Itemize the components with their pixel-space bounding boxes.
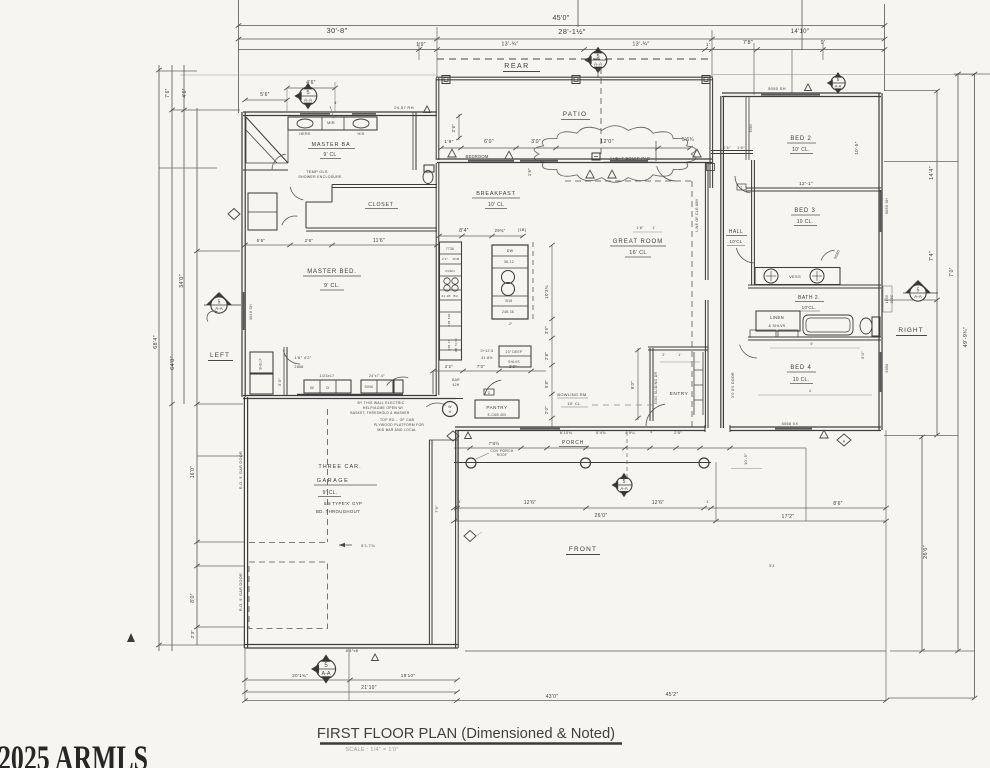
right rot label 49-9 <box>963 327 969 348</box>
svg-text:R1B: R1B <box>453 257 460 261</box>
front door opening marks <box>704 425 706 432</box>
svg-text:68'4″: 68'4″ <box>153 335 159 349</box>
right wing east wall <box>878 93 880 430</box>
laundry counter <box>304 380 351 393</box>
svg-text:LINEN: LINEN <box>770 315 784 320</box>
left rot label 8-0 <box>190 593 196 603</box>
svg-text:TOP RO... OF CAB: TOP RO... OF CAB <box>380 418 415 422</box>
north arrow small <box>127 633 135 642</box>
left tick y456 <box>197 455 243 457</box>
svg-text:2'0″: 2'0″ <box>544 406 549 414</box>
svg-text:W: W <box>448 405 452 409</box>
svg-text:13'-¾″: 13'-¾″ <box>501 42 518 48</box>
extension x792 <box>791 50 793 93</box>
left tick y251 <box>197 250 240 252</box>
svg-text:D: D <box>326 385 329 390</box>
patio post left <box>442 76 450 84</box>
front door dashed <box>626 432 628 477</box>
left tick y627 <box>197 626 245 628</box>
island sink circles <box>502 271 515 284</box>
svg-text:5050 SH: 5050 SH <box>885 198 889 214</box>
kitchen dim y371 <box>433 370 546 372</box>
svg-text:23″ DEEP: 23″ DEEP <box>506 350 523 354</box>
kitchen dim vertical x552 <box>551 245 553 427</box>
garage arrow note <box>339 544 352 546</box>
master rot window label <box>249 304 253 320</box>
svg-text:24B 400: 24B 400 <box>447 313 451 326</box>
master door tag diamond <box>299 87 317 105</box>
svg-text:MASTER BED.: MASTER BED. <box>307 269 356 275</box>
right door tag diamond <box>905 280 931 293</box>
kitchen top dim <box>439 235 523 237</box>
bathtub <box>803 315 853 335</box>
svg-text:17'2″: 17'2″ <box>782 514 795 520</box>
svg-text:W: W <box>310 385 314 390</box>
svg-text:42H: 42H <box>452 383 459 387</box>
garage dashed vertical <box>327 409 329 542</box>
svg-text:A-A: A-A <box>304 98 313 104</box>
svg-text:LEFT: LEFT <box>210 352 230 359</box>
wc toilet <box>424 165 434 172</box>
svg-text:7'0″: 7'0″ <box>949 267 955 277</box>
svg-text:10 CL.: 10 CL. <box>797 219 814 225</box>
garage dim y680 <box>245 679 457 681</box>
bed2 door tag <box>831 76 845 90</box>
svg-text:24-57 RH: 24-57 RH <box>394 105 414 110</box>
porch bottom dim line1 <box>454 507 886 509</box>
left dim vertical x182 <box>183 65 185 404</box>
svg-text:29¾″: 29¾″ <box>495 228 506 233</box>
svg-text:16'0″: 16'0″ <box>190 466 196 479</box>
right tick y300 <box>884 299 937 301</box>
porch dim vertical x457 <box>456 430 458 521</box>
right wing west wall <box>720 96 722 428</box>
left tick y566 <box>197 565 245 567</box>
garage dashed h1 <box>249 542 328 544</box>
triangle marker a <box>448 149 456 157</box>
kitchen west wall <box>435 163 437 395</box>
revision cloud <box>534 126 696 183</box>
rear window dim line <box>441 147 690 149</box>
svg-text:5060 SLIDING DR: 5060 SLIDING DR <box>654 372 658 405</box>
svg-text:41.1B: 41.1B <box>441 294 450 298</box>
svg-text:BEDROOM: BEDROOM <box>465 154 488 159</box>
svg-text:64'0″: 64'0″ <box>170 356 176 370</box>
svg-text:5'6″: 5'6″ <box>260 92 270 98</box>
svg-text:A-A: A-A <box>835 84 842 89</box>
svg-text:BED 3: BED 3 <box>794 208 815 214</box>
svg-text:8'4″: 8'4″ <box>459 228 469 234</box>
front yard line <box>465 650 886 652</box>
svg-text:8'0″: 8'0″ <box>190 593 196 603</box>
svg-text:7736: 7736 <box>446 247 454 251</box>
svg-text:36.12: 36.12 <box>504 260 514 264</box>
extension x437 top <box>436 27 438 77</box>
svg-text:ROOF: ROOF <box>497 453 507 457</box>
svg-text:3040 SH: 3040 SH <box>249 304 253 320</box>
svg-text:HELP/ACME OPEN W/: HELP/ACME OPEN W/ <box>363 406 403 410</box>
svg-text:10' CL: 10' CL <box>488 202 504 208</box>
dimension extension line x884 <box>884 4 886 91</box>
svg-text:6'0″: 6'0″ <box>484 139 494 145</box>
svg-text:GARAGE: GARAGE <box>317 478 350 484</box>
patio left wall <box>435 78 437 160</box>
svg-text:PANTRY: PANTRY <box>486 405 507 410</box>
dimension extension line x578 <box>577 0 579 27</box>
garage dim vertical x245b <box>244 648 246 700</box>
svg-text:7'8″: 7'8″ <box>743 40 753 46</box>
svg-text:16' CL: 16' CL <box>629 250 647 256</box>
master top window mark <box>300 113 330 115</box>
svg-text:2'3″: 2'3″ <box>190 630 195 639</box>
master closet shelf lower <box>250 374 273 394</box>
svg-text:HIS: HIS <box>358 132 365 136</box>
svg-text:13'-¾″: 13'-¾″ <box>632 42 649 48</box>
svg-text:3'0″: 3'0″ <box>509 364 517 369</box>
svg-text:4: 4 <box>809 389 811 393</box>
garage dim y692 <box>245 691 457 693</box>
center rear wall <box>437 158 712 160</box>
right tick y698 <box>888 697 975 699</box>
svg-text:5: 5 <box>596 54 599 60</box>
svg-text:9': 9' <box>810 342 813 346</box>
bed4 top wall <box>748 336 881 338</box>
svg-text:5'8″: 5'8″ <box>544 380 549 388</box>
svg-text:2'6″: 2'6″ <box>451 124 456 133</box>
svg-text:5: 5 <box>623 479 626 485</box>
master closet shelf upper <box>250 352 273 373</box>
svg-text:4': 4' <box>650 430 653 434</box>
svg-text:ENTRY: ENTRY <box>670 391 689 397</box>
house front wall <box>455 426 705 428</box>
rot label line of clg <box>695 198 699 232</box>
left rot label 7-6 <box>165 88 171 98</box>
bed4 shelf boxes <box>750 330 776 337</box>
porch dim vertical x806 <box>805 448 807 521</box>
patio wall junction box <box>707 164 715 171</box>
gallery dim vertical <box>637 348 639 420</box>
right tick y161 <box>884 161 958 163</box>
svg-text:7'8½: 7'8½ <box>489 440 500 446</box>
svg-text:5'6″: 5'6″ <box>257 238 266 243</box>
patio door arc <box>657 166 676 181</box>
svg-text:BY THIS WALL ELECTRIC: BY THIS WALL ELECTRIC <box>358 401 405 405</box>
svg-text:10 CL.: 10 CL. <box>793 377 810 383</box>
svg-text:1'6″: 1'6″ <box>527 168 532 176</box>
yard vertical x886 <box>885 430 887 700</box>
front door tag diamond <box>616 477 632 493</box>
left rot label garage door 1 <box>239 451 243 489</box>
svg-text:SHOWER ENCLOSURE: SHOWER ENCLOSURE <box>298 175 342 179</box>
extension x823 <box>822 43 824 60</box>
center east wall lower <box>704 300 706 428</box>
island dashed counter edge <box>532 242 534 319</box>
porch column 2 <box>581 458 591 468</box>
svg-text:5: 5 <box>218 300 221 306</box>
left rot label 34-0 <box>179 274 185 288</box>
svg-text:PATIO: PATIO <box>563 111 588 118</box>
linen room <box>248 193 277 230</box>
svg-text:SINK: SINK <box>364 385 374 389</box>
garage bottom wall <box>244 644 458 646</box>
mud room walls <box>420 398 463 400</box>
svg-text:5: 5 <box>306 90 309 96</box>
svg-text:7'4″: 7'4″ <box>929 251 935 261</box>
svg-text:A-A: A-A <box>914 294 922 299</box>
bed3 closet rot label <box>833 249 841 259</box>
svg-text:34B 24: 34B 24 <box>447 339 451 350</box>
svg-text:21'10″: 21'10″ <box>361 685 377 691</box>
ac equip box <box>592 153 600 160</box>
dim line 30-8 / 28-1 / 14-10 <box>239 38 885 40</box>
left dim vertical x152 <box>158 65 160 651</box>
pantry box <box>475 400 519 418</box>
master closet rot dim <box>277 378 282 386</box>
porch dim line <box>454 447 806 449</box>
svg-text:5/8 TYPE'X' GYP: 5/8 TYPE'X' GYP <box>324 501 362 506</box>
extension x419 <box>418 43 420 60</box>
svg-text:7'0″: 7'0″ <box>477 364 485 369</box>
svg-text:PLYWOOD PLATFORM FOR: PLYWOOD PLATFORM FOR <box>374 423 425 427</box>
svg-text:3'1″: 3'1″ <box>442 257 448 261</box>
front door rot label <box>731 372 735 398</box>
cooktop burners <box>444 278 450 284</box>
garage rot 7-9 <box>434 505 439 513</box>
svg-text:5068 XX: 5068 XX <box>782 422 799 426</box>
left rot label 64-0 <box>170 356 176 370</box>
svg-text:BAR: BAR <box>452 378 460 382</box>
porch dim vertical x716 <box>715 462 717 521</box>
svg-text:REAR: REAR <box>504 63 529 70</box>
svg-text:5'4: 5'4 <box>769 564 775 568</box>
laundry box right <box>394 380 403 393</box>
left rot label 2-3 <box>190 630 195 639</box>
master closet wall <box>286 347 288 395</box>
door tag porch left <box>447 431 459 441</box>
svg-text:34'0″: 34'0″ <box>179 274 185 288</box>
pantry door arc <box>485 380 502 395</box>
left tick y645 <box>159 644 245 646</box>
triangle front right <box>820 430 828 438</box>
bed2 rot dim 10-5 <box>854 141 859 154</box>
entry door arc <box>646 404 665 426</box>
right dim vertical x922 <box>921 435 923 651</box>
wh circle <box>443 402 458 417</box>
master bottom door arc <box>283 350 300 364</box>
dim line 45ft0in <box>239 25 885 27</box>
patio top wall <box>436 76 713 78</box>
rear wall window marks <box>468 160 514 162</box>
svg-text:11'6″: 11'6″ <box>373 238 385 244</box>
porch column 1 <box>466 458 476 468</box>
left tick y71 <box>159 70 197 72</box>
svg-text:10'CL: 10'CL <box>729 239 742 244</box>
patio right wall <box>709 78 711 188</box>
front yard diamond small <box>464 531 476 542</box>
svg-text:5'1.7¾: 5'1.7¾ <box>361 543 375 548</box>
svg-text:10' CL.: 10' CL. <box>792 147 810 153</box>
entry closet east wall <box>693 352 695 415</box>
svg-text:A-A: A-A <box>215 306 223 311</box>
patio dim vertical x459 <box>458 114 460 140</box>
svg-text:19'10″: 19'10″ <box>401 673 416 678</box>
shower door arc <box>272 154 286 170</box>
svg-text:FRONT: FRONT <box>569 546 597 553</box>
right wing top wall <box>722 92 881 94</box>
porch edge line <box>454 462 711 464</box>
svg-text:A-A: A-A <box>620 486 628 491</box>
left rot label 4-6 <box>182 88 188 98</box>
svg-text:2868: 2868 <box>294 365 303 369</box>
svg-text:14'10″: 14'10″ <box>791 29 810 35</box>
center east wall upper <box>704 163 706 280</box>
svg-text:OVEN: OVEN <box>445 269 455 273</box>
master wing top wall <box>243 111 437 113</box>
svg-text:MID BAR AND LOCAL: MID BAR AND LOCAL <box>377 428 416 432</box>
svg-text:SHELF: SHELF <box>259 358 263 370</box>
svg-text:3'5″: 3'5″ <box>544 326 549 334</box>
svg-text:45'2″: 45'2″ <box>666 692 679 698</box>
svg-text:8'6″: 8'6″ <box>833 501 843 507</box>
svg-text:9' CL: 9' CL <box>323 152 336 158</box>
entry closet west wall <box>649 348 651 421</box>
svg-text:2'6″: 2'6″ <box>723 146 731 150</box>
extension x712 top <box>711 30 713 77</box>
svg-text:3'0″: 3'0″ <box>531 139 541 145</box>
garage door tag diamond <box>316 659 335 678</box>
hall top wall <box>711 150 753 152</box>
svg-text:R.O. 9' GAR DOOR: R.O. 9' GAR DOOR <box>239 573 243 611</box>
svg-text:2': 2' <box>662 353 665 357</box>
svg-text:10'3¾: 10'3¾ <box>544 285 549 299</box>
toilet bath2 <box>872 317 880 336</box>
master left window mark <box>243 292 245 330</box>
svg-text:5'0″: 5'0″ <box>860 351 865 359</box>
right tick y435 <box>884 435 958 437</box>
svg-text:1'9″: 1'9″ <box>416 42 426 48</box>
front wall window marks <box>520 428 560 430</box>
master bath sink his <box>353 119 369 128</box>
hall patio door arc <box>735 176 751 193</box>
patio dim small rot 2-6 <box>451 124 456 133</box>
hall east wall <box>751 160 753 285</box>
svg-text:9' CL.: 9' CL. <box>324 283 340 289</box>
svg-text:A-A: A-A <box>322 671 331 677</box>
great room dashed line <box>691 181 693 428</box>
svg-text:7'9″: 7'9″ <box>434 505 439 513</box>
left tick y542 <box>197 541 245 543</box>
garage dim vertical x349 <box>348 648 350 700</box>
left tick y168 <box>159 167 217 169</box>
svg-text:THREE CAR.: THREE CAR. <box>318 464 361 470</box>
svg-text:41.8½: 41.8½ <box>481 356 493 360</box>
svg-text:2'6″: 2'6″ <box>305 238 314 243</box>
right dim vertical x974 <box>974 73 976 698</box>
svg-text:3'0 8'0 DOOR: 3'0 8'0 DOOR <box>731 372 735 398</box>
svg-text:12'0″: 12'0″ <box>600 139 614 145</box>
svg-text:1': 1' <box>652 226 655 230</box>
closet top wall <box>332 184 437 186</box>
svg-text:BASKET, THRESHOLD & WASHER: BASKET, THRESHOLD & WASHER <box>350 411 410 415</box>
porch column leader <box>476 453 489 459</box>
triangle bed2 <box>805 84 812 91</box>
house front wall right <box>730 426 881 428</box>
laundry door arc <box>387 377 409 385</box>
svg-text:CLOSET: CLOSET <box>368 202 394 208</box>
svg-text:RIGHT: RIGHT <box>898 327 923 334</box>
svg-text:5: 5 <box>917 288 920 294</box>
right tick y74 <box>954 73 990 75</box>
svg-text:B¼: B¼ <box>453 294 458 298</box>
svg-text:5060: 5060 <box>749 124 753 133</box>
window tag small master left <box>228 209 240 220</box>
garage dashed rect <box>249 562 328 629</box>
dimension extension line left vertical x238 <box>238 0 240 113</box>
svg-text:2'8″: 2'8″ <box>544 352 549 360</box>
left tick y404 <box>197 403 243 405</box>
svg-text:4': 4' <box>334 100 338 105</box>
patio post mid <box>572 76 580 84</box>
right tick y90 <box>884 90 937 92</box>
svg-text:24″x7'-0″: 24″x7'-0″ <box>369 374 386 378</box>
triangle marker e <box>608 170 616 178</box>
door tag small front right <box>837 434 851 446</box>
dim above master 4-6 <box>287 87 335 89</box>
svg-text:A-A: A-A <box>594 62 603 68</box>
closet door arcs <box>282 216 298 225</box>
svg-text:5'3″: 5'3″ <box>277 378 282 386</box>
garage top connector <box>429 439 458 441</box>
master wing left wall <box>241 112 243 397</box>
svg-text:[1B]: [1B] <box>518 227 526 232</box>
east wall window bed4 <box>880 352 882 392</box>
svg-text:1'6″: 1'6″ <box>636 226 644 230</box>
svg-text:& SHLVS: & SHLVS <box>768 324 785 328</box>
triangle marker d <box>586 170 594 178</box>
svg-text:BOWLING RM: BOWLING RM <box>557 392 586 397</box>
svg-text:6'10¾: 6'10¾ <box>560 430 573 435</box>
svg-text:2: 2 <box>740 186 742 190</box>
svg-text:5'6¾: 5'6¾ <box>682 137 694 143</box>
svg-text:1'6″ 4'2″: 1'6″ 4'2″ <box>294 355 311 360</box>
svg-text:12'6″: 12'6″ <box>652 500 665 506</box>
svg-text:AB 74.00: AB 74.00 <box>454 338 458 352</box>
svg-text:9'0″: 9'0″ <box>630 381 635 389</box>
master bath sink hers <box>297 119 313 128</box>
entry closet top <box>648 346 708 348</box>
svg-text:2: 2 <box>488 391 490 395</box>
svg-text:1': 1' <box>678 353 681 357</box>
svg-text:14'4″: 14'4″ <box>929 166 935 180</box>
dimension extension line x802 <box>801 0 803 50</box>
svg-text:6'4¾: 6'4¾ <box>596 430 606 435</box>
left tick y110 <box>172 109 240 111</box>
master bath vanity <box>288 117 377 130</box>
svg-text:26'6″: 26'6″ <box>923 545 929 559</box>
svg-text:B15: B15 <box>506 299 513 303</box>
svg-text:BD. THROUGHOUT: BD. THROUGHOUT <box>316 509 360 514</box>
right rot label 14-4 <box>929 166 935 180</box>
bed2 bottom wall <box>746 187 881 189</box>
door tag diamond rear <box>589 51 607 69</box>
left door tag diamond <box>206 292 232 305</box>
svg-text:28'-1½″: 28'-1½″ <box>558 27 585 36</box>
svg-text:7'6″: 7'6″ <box>165 88 171 98</box>
svg-text:43'0″: 43'0″ <box>546 694 559 700</box>
porch bottom dim line2b <box>716 520 886 522</box>
bed2 closet wall <box>745 97 747 160</box>
porch rot 10-5 <box>743 453 748 465</box>
